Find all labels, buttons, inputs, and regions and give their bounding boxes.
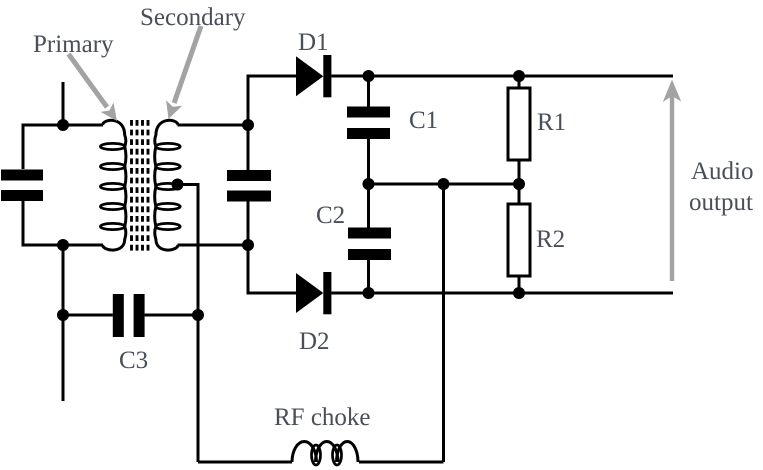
wire C3 left lead: [63, 314, 113, 317]
capacitor primary tank bottom plate: [1, 190, 43, 201]
capacitor C2 bottom plate: [348, 249, 391, 260]
node D2 cathode junction: [363, 287, 375, 299]
wire bottom loop left: [198, 461, 292, 464]
wire C2 bottom lead: [367, 260, 370, 293]
svg-text:D1: D1: [298, 29, 329, 56]
wire R1 top lead: [518, 76, 521, 88]
RF choke coil: [292, 442, 358, 466]
wire top-left stub: [62, 82, 65, 125]
svg-text:C3: C3: [119, 347, 148, 374]
wire middle rail: [369, 183, 520, 186]
node secondary bottom junction: [242, 239, 254, 251]
transformer primary coil: [100, 120, 126, 250]
svg-text:C2: C2: [316, 202, 345, 229]
node D1 cathode junction: [363, 70, 375, 82]
wire C3 right lead: [145, 314, 198, 317]
node secondary centre tap: [172, 179, 184, 191]
annotation arrow secondary: [166, 26, 201, 119]
capacitor C1 bottom plate: [347, 128, 390, 139]
wire C1 top lead: [367, 76, 370, 107]
node primary top junction: [57, 119, 69, 131]
wire de-emphasis down wire to bottom loop: [442, 184, 445, 462]
resistor R1: [508, 88, 530, 160]
node secondary top junction: [242, 119, 254, 131]
capacitor secondary tank bottom plate: [227, 191, 271, 202]
wire bottom loop right: [359, 461, 444, 464]
node R1 top junction: [513, 70, 525, 82]
node C3 left junction: [57, 309, 69, 321]
wire lower-left stub: [62, 245, 65, 401]
wire centre tap down to bottom rail: [178, 185, 199, 463]
node primary bottom junction: [57, 239, 69, 251]
wire C1 bottom to C2 top: [367, 139, 370, 228]
transformer core dashed lines: [132, 120, 149, 254]
node R2 bottom junction: [513, 287, 525, 299]
diode D2: [296, 272, 331, 314]
wire R2 bottom lead: [518, 276, 521, 293]
node C3 right junction: [192, 309, 204, 321]
wire primary top rail with corner to tank cap: [23, 125, 103, 169]
transformer secondary coil: [155, 120, 181, 250]
svg-text:C1: C1: [409, 107, 438, 134]
capacitor primary tank top plate: [1, 170, 43, 181]
wire top rail: [331, 75, 673, 78]
capacitor C1 top plate: [347, 107, 390, 118]
wire bottom rail: [331, 292, 673, 295]
wire tank cap bottom to primary bottom rail: [23, 201, 103, 245]
svg-text:Audio: Audio: [691, 158, 754, 185]
annotation arrow audio output: [663, 80, 681, 282]
svg-text:Primary: Primary: [33, 31, 114, 58]
svg-text:output: output: [689, 189, 753, 216]
svg-text:RF choke: RF choke: [274, 404, 371, 431]
diode D1: [296, 55, 331, 97]
wire secondary bottom rail: [178, 244, 249, 247]
svg-text:D2: D2: [299, 328, 330, 355]
svg-text:R2: R2: [536, 226, 565, 253]
node middle rail tap junction: [438, 178, 450, 190]
resistor R2: [508, 204, 530, 276]
capacitor C3 right plate: [134, 294, 145, 337]
capacitor secondary tank top plate: [227, 170, 271, 181]
svg-text:R1: R1: [537, 109, 566, 136]
capacitor C2 top plate: [348, 228, 391, 239]
svg-text:Secondary: Secondary: [140, 4, 246, 31]
wire secondary tank cap bottom to D2 corner: [248, 202, 296, 294]
wire R1 bottom to mid rail: [518, 160, 521, 204]
node R1-R2 junction: [513, 178, 525, 190]
annotation arrow primary: [69, 54, 118, 121]
wire secondary top rail to D1 branch: [178, 124, 249, 127]
node C1-C2 mid junction: [363, 178, 375, 190]
wire D1 branch vertical top (corner to D1 anode): [248, 76, 296, 170]
capacitor C3 left plate: [113, 294, 124, 337]
